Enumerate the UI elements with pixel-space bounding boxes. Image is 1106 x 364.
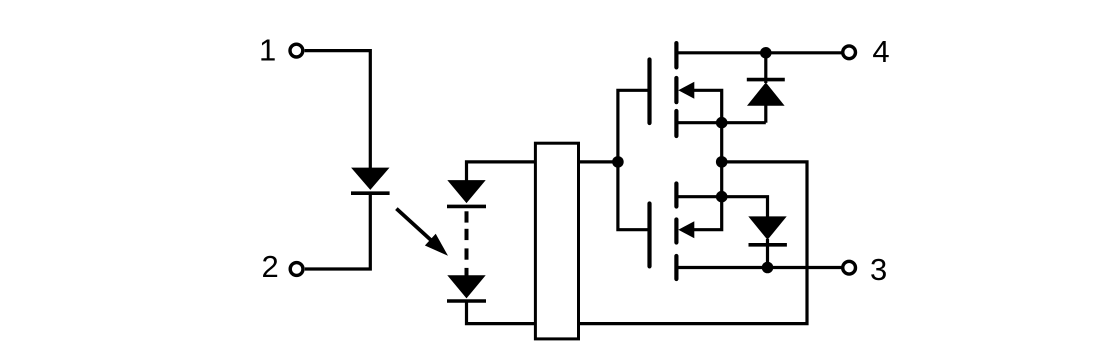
body diode D2 triangle [747,82,785,105]
body diode D3 cathode bar [749,243,787,247]
junction common source node [716,156,728,168]
photodiode PD2 triangle [447,275,485,298]
wire Q2 source [677,195,722,198]
junction Q1 source-body [716,117,728,129]
control circuit block U1 [535,143,578,339]
wire Q1 source [677,121,766,124]
svg-text:1: 1 [259,32,276,67]
MOSFET Q2 channel bars [674,184,678,280]
body diode D3 lower lead [766,239,769,268]
terminal pin 1 [290,44,303,57]
svg-text:4: 4 [872,34,889,69]
wire gate node to Q1 gate [618,90,648,162]
LED D1 triangle [351,168,389,190]
junction Q1 drain-diode [760,47,772,59]
pin 2 label [261,249,278,284]
wire common source vertical [720,123,723,197]
wire gate node to Q2 gate [618,162,648,230]
pin 4 label [872,34,889,69]
wire photodiode stack top to control block [467,162,536,181]
terminal pin 3 [843,261,856,274]
wire pin1 to LED anode [305,51,371,169]
light coupling arrow [396,209,448,256]
junction Q2 drain-diode [762,262,774,274]
body diode D3 triangle [748,216,786,240]
LED D1 cathode bar [351,191,390,195]
wire control block to gate node [579,160,618,163]
MOSFET Q1 gate bar [647,60,651,124]
junction gate node [612,156,624,168]
dashed link PD1 to PD2 [465,211,469,275]
pin 1 label [259,32,276,67]
body diode D2 cathode bar [747,78,785,82]
pin 3 label [870,252,887,287]
wire LED cathode to pin2 [305,193,371,269]
wire photodiode stack bottom to control block [467,301,536,324]
MOSFET Q2 body arrow [678,197,721,239]
wire Q2 drain to pin 3 [677,266,844,269]
MOSFET Q1 body arrow [678,82,721,123]
photodiode PD1 triangle [447,180,485,203]
MOSFET Q1 channel bars [674,43,678,136]
photodiode PD1 cathode bar [447,205,486,209]
terminal pin 2 [290,263,303,276]
wire common source return to control block [579,162,808,324]
body diode D2 vertical leads [764,53,767,123]
wire Q2 source to body diode D3 [722,197,768,218]
svg-text:3: 3 [870,252,887,287]
junction Q2 source-body [716,191,728,203]
wire Q1 drain to pin 4 [677,51,844,54]
svg-text:2: 2 [261,249,278,284]
MOSFET Q2 gate bar [647,204,651,267]
terminal pin 4 [843,46,856,59]
photodiode PD2 cathode bar [447,299,486,303]
